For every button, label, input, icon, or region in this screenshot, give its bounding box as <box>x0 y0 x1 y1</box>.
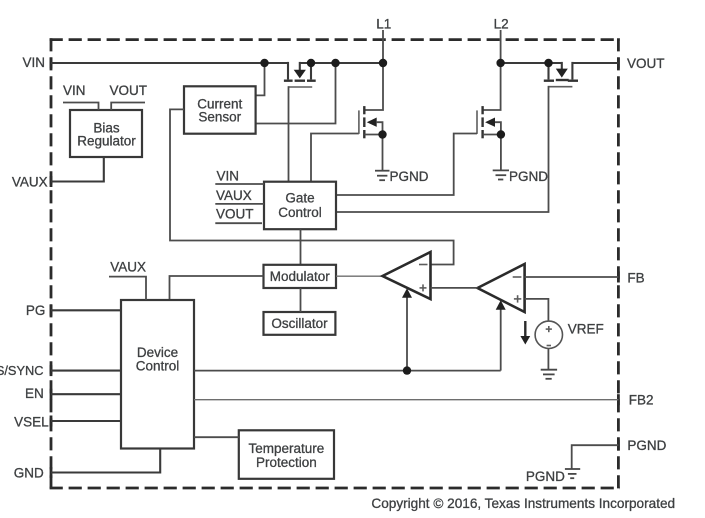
svg-text:EN: EN <box>25 386 44 401</box>
svg-text:VREF: VREF <box>568 321 604 336</box>
voltage source VREF <box>535 321 562 348</box>
wire L1 pin through border to switch node <box>364 30 383 110</box>
node VOUT input of Gate Control <box>215 206 262 223</box>
junction at Q3 source <box>497 130 505 138</box>
svg-text:Regulator: Regulator <box>77 134 136 149</box>
wire NMOS Q2 gate to Gate Control <box>311 134 359 182</box>
junction on VIN rail at lower current sensor tap <box>331 59 339 67</box>
box Bias Regulator <box>70 110 142 157</box>
svg-text:FB2: FB2 <box>629 393 654 408</box>
junction at Q2 source <box>378 130 386 138</box>
wire arrow into U1 bottom <box>402 288 412 370</box>
box Temperature Protection <box>239 430 334 479</box>
wire current sensor lower tap <box>256 63 336 124</box>
wire VREF to ground <box>547 349 549 370</box>
ground at VREF <box>541 370 557 379</box>
svg-text:VIN: VIN <box>63 83 86 98</box>
transistor Q3 low-side NMOS right <box>477 106 501 138</box>
svg-text:VAUX: VAUX <box>216 188 252 203</box>
wire L2 pin through border to switch node <box>483 30 501 110</box>
wire FB2 line <box>194 399 618 401</box>
svg-text:GND: GND <box>14 465 44 480</box>
wire U2 plus input to VREF <box>525 299 549 321</box>
svg-text:Control: Control <box>136 358 180 373</box>
svg-text:Sensor: Sensor <box>198 109 241 124</box>
node VIN input of Gate Control <box>215 169 264 185</box>
svg-text:FB: FB <box>627 270 644 285</box>
svg-text:S/SYNC: S/SYNC <box>0 363 43 378</box>
wire Q3 gate to Gate Control output <box>336 134 477 196</box>
svg-text:VAUX: VAUX <box>110 259 146 274</box>
current direction arrow at VREF <box>520 321 530 345</box>
wire GND pin <box>51 449 160 473</box>
svg-text:Modulator: Modulator <box>270 269 331 284</box>
node VAUX input of Gate Control <box>215 188 264 204</box>
junction on VIN rail at current sensor tap <box>260 59 268 67</box>
svg-text:Copyright © 2016, Texas Instru: Copyright © 2016, Texas Instruments Inco… <box>371 496 675 511</box>
wire Gate Control to Modulator <box>300 229 302 265</box>
pin ticks on border <box>50 58 620 479</box>
wire PG pin <box>51 309 121 311</box>
wire Device Control soft-start line to amplifiers <box>194 370 501 372</box>
transistor Q2 low-side NMOS left <box>359 106 383 138</box>
svg-text:L1: L1 <box>376 17 391 32</box>
svg-text:VOUT: VOUT <box>110 83 148 98</box>
wire current sensor top tap <box>256 63 265 95</box>
node L2 switch junction <box>496 59 504 67</box>
node VAUX pin of Device Control <box>109 259 146 300</box>
node VIN input pin of Bias Regulator <box>63 83 99 110</box>
svg-text:L2: L2 <box>494 17 509 32</box>
junction on VIN rail at Q1 right terminal <box>307 59 315 67</box>
junction on soft-start line <box>403 366 411 374</box>
ground PGND at Q3 <box>493 170 509 179</box>
svg-text:VSEL: VSEL <box>14 415 49 430</box>
svg-text:VOUT: VOUT <box>216 206 254 221</box>
svg-text:PG: PG <box>26 303 46 318</box>
svg-text:VAUX: VAUX <box>12 174 48 189</box>
node VOUT input pin of Bias Regulator <box>110 83 148 110</box>
box Modulator <box>264 265 337 288</box>
wire Modulator to Oscillator <box>300 288 302 312</box>
ground PGND bottom right <box>565 469 580 478</box>
node L1 switch junction <box>379 59 387 67</box>
svg-text:PGND: PGND <box>509 169 548 184</box>
svg-text:Control: Control <box>278 205 322 220</box>
wire U2 output to U1 plus input <box>431 287 478 289</box>
wire Q3 source to PGND <box>500 135 502 171</box>
svg-text:VIN: VIN <box>217 169 240 184</box>
box Device Control <box>121 300 194 449</box>
svg-text:Gate: Gate <box>285 190 314 205</box>
junction at Q4 left terminal <box>544 59 552 67</box>
device outline dashed border <box>50 38 620 489</box>
wire Modulator output to comparator U1 <box>336 275 383 277</box>
box Gate Control <box>264 182 336 230</box>
wire Q4 gate down to Gate Control output <box>336 86 549 212</box>
wire Device Control to Temperature Protection <box>194 436 239 438</box>
wire Device Control to Modulator <box>170 276 264 300</box>
op-amp U1 PWM comparator <box>383 252 431 299</box>
wire FB pin to U2 minus input <box>525 276 619 278</box>
svg-text:PGND: PGND <box>627 438 666 453</box>
wire Q1 gate to Gate Control <box>288 86 290 182</box>
wire VIN rail <box>51 62 288 64</box>
svg-text:Protection: Protection <box>256 455 317 470</box>
wire Q2 source to PGND <box>382 135 384 171</box>
svg-text:VOUT: VOUT <box>627 56 665 71</box>
wire arrow into U2 bottom <box>496 300 506 370</box>
transistor Q4 high-side PMOS at VOUT <box>544 62 578 87</box>
svg-text:VIN: VIN <box>22 55 45 70</box>
transistor Q1 high-side PMOS at VIN <box>284 62 316 87</box>
wire VIN rail right segment to L1 node <box>300 62 383 64</box>
wire VOUT to border <box>572 62 618 64</box>
op-amp U2 error amplifier <box>478 264 525 312</box>
svg-text:PGND: PGND <box>390 169 429 184</box>
wire Bias Regulator to VAUX pin <box>51 157 104 182</box>
wire Current Sensor output to comparator minus <box>170 109 454 264</box>
wire PS/SYNC pin <box>51 370 121 372</box>
box Oscillator <box>264 312 336 335</box>
svg-text:Temperature: Temperature <box>249 441 325 456</box>
box Current Sensor <box>184 86 256 133</box>
svg-text:PGND: PGND <box>526 469 565 484</box>
wire EN pin <box>51 393 121 395</box>
wire VSEL pin <box>51 420 121 422</box>
wire VOUT rail from L2 node <box>501 62 562 64</box>
ground PGND at Q2 <box>375 171 390 181</box>
svg-text:Oscillator: Oscillator <box>271 316 328 331</box>
wire PGND pin lower right <box>572 445 619 469</box>
